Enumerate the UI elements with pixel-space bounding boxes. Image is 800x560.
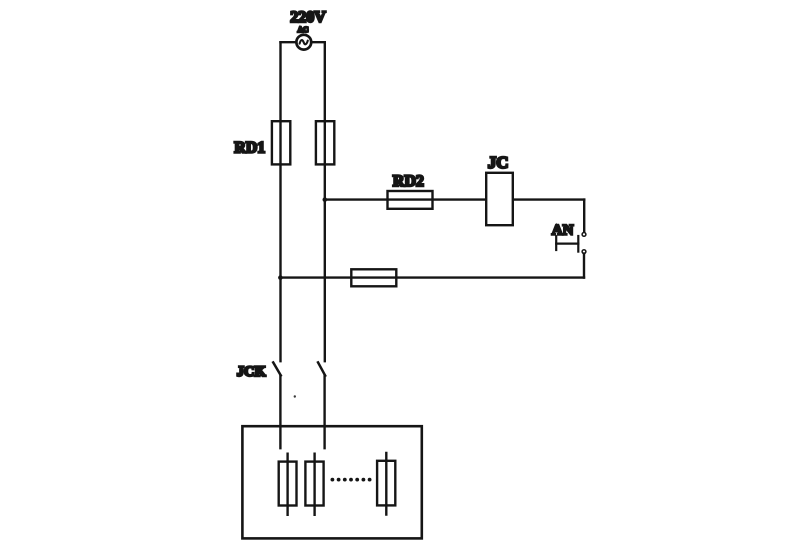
switch JCK right contact blade [318, 362, 325, 375]
wire right vertical lower (JCK contact to load box) [323, 376, 325, 449]
speck artifact dot [294, 395, 296, 397]
pushbutton AN contact bar [577, 236, 579, 252]
wire bottom control return horizontal [280, 276, 584, 278]
svg-text:JC: JC [488, 153, 509, 172]
fuse element 2 in box [305, 454, 323, 515]
wire top horizontal from left corner to right corner [281, 41, 325, 43]
svg-text:JCK: JCK [237, 364, 267, 380]
fuse element 3 in box [377, 453, 395, 515]
node junction dot on left bus at bottom control wire [278, 275, 283, 280]
pushbutton AN terminal bottom [582, 250, 586, 254]
svg-text:RD1: RD1 [234, 140, 265, 157]
node junction dot at right bus and control branch [323, 197, 328, 202]
wire left vertical lower (JCK contact to load box) [279, 375, 281, 448]
wire below pushbutton [583, 254, 585, 278]
fuse RD1 right cartridge [316, 121, 334, 164]
wire control branch horizontal to relay coil [325, 198, 584, 200]
AC source U1 [296, 35, 311, 50]
svg-text:220V: 220V [290, 9, 326, 26]
pushbutton AN actuator shaft [556, 243, 578, 245]
wire left vertical upper (source to JCK contact) [279, 42, 281, 361]
switch JCK left contact blade [273, 362, 281, 375]
fuse element 1 in box [279, 454, 297, 515]
svg-text:AC: AC [298, 25, 309, 34]
svg-text:AN: AN [552, 222, 574, 238]
relay coil JC [486, 173, 513, 225]
fuse RD1 left cartridge [272, 121, 290, 164]
fuse bottom (unlabeled cartridge) [351, 269, 396, 286]
svg-text:RD2: RD2 [393, 173, 424, 190]
ellipsis dots between fuse elements [331, 478, 372, 482]
load box enclosure [242, 426, 421, 538]
wire right drop to pushbutton [583, 200, 585, 233]
pushbutton AN cap [555, 236, 557, 250]
wire right vertical upper (source to JCK contact) [324, 42, 326, 361]
pushbutton AN terminal top [582, 233, 586, 237]
fuse RD2 [388, 191, 433, 209]
